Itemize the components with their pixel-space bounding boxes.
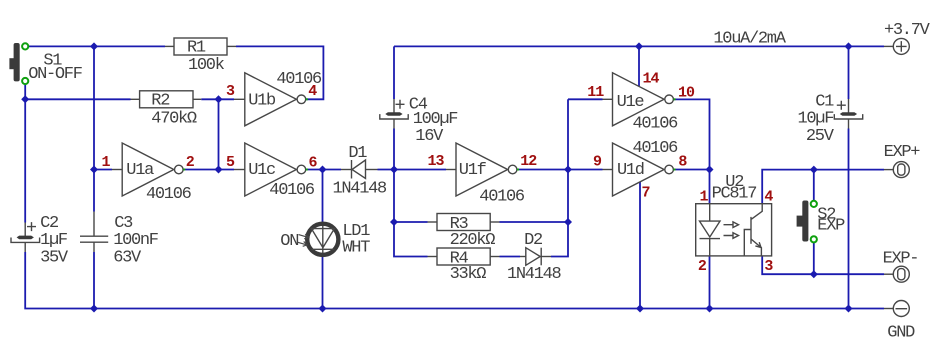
wire top-left rail S1 to R1: [25, 45, 165, 47]
wire vertical column x94 upper: [93, 46, 95, 211]
svg-text:U1c: U1c: [248, 161, 275, 180]
svg-text:12: 12: [520, 153, 537, 170]
wire U1d input pin9: [568, 169, 603, 171]
svg-text:40106: 40106: [633, 115, 679, 134]
svg-text:10: 10: [678, 85, 695, 102]
wire C4 bottom to node 13: [393, 129, 395, 170]
svg-text:63V: 63V: [113, 248, 142, 267]
wire U1f output to node 12: [516, 169, 568, 171]
wire pin7 ground U1d: [639, 182, 641, 309]
junction U1d output node: [706, 166, 714, 174]
terminal S2 top: [811, 201, 817, 207]
diode D1: [333, 144, 388, 199]
resistor R1: [165, 38, 236, 75]
capacitor C4: [380, 96, 458, 146]
wire opto pin4 to EXP+ row: [762, 170, 884, 204]
svg-text:R2: R2: [151, 91, 169, 110]
wire D2 right up to R3 row: [551, 222, 568, 257]
capacitor C3: [80, 212, 158, 268]
wire U1c output to D1: [305, 169, 341, 171]
svg-text:1µF: 1µF: [40, 231, 67, 250]
svg-text:33kΩ: 33kΩ: [450, 265, 487, 284]
svg-text:14: 14: [643, 70, 660, 87]
svg-text:7: 7: [642, 185, 650, 202]
svg-text:+3.7V: +3.7V: [884, 21, 931, 40]
junction U1a input: [90, 166, 98, 174]
svg-text:1N4148: 1N4148: [333, 179, 388, 198]
svg-text:16V: 16V: [415, 127, 444, 146]
svg-text:9: 9: [593, 154, 602, 171]
junction GND pin7: [636, 305, 644, 313]
svg-text:10uA/2mA: 10uA/2mA: [713, 29, 786, 48]
inverter U1b: [234, 70, 322, 126]
wire R4 right to D2: [500, 256, 521, 258]
inverter U1e: [603, 73, 679, 134]
svg-text:10µF: 10µF: [798, 110, 834, 129]
wire R3 left lead: [394, 221, 428, 223]
wire LED column upper: [322, 170, 324, 223]
ground terminal GND: [884, 301, 915, 343]
wire U1a output to U1c input node: [183, 169, 234, 171]
svg-text:D1: D1: [348, 144, 367, 163]
svg-text:40106: 40106: [146, 185, 192, 204]
resistor R3: [428, 214, 500, 251]
junction EXP- S2: [810, 270, 818, 278]
wire U1d output to junction: [673, 169, 710, 171]
wire junction to R2 left: [25, 98, 130, 100]
wire S2 top: [813, 170, 815, 201]
terminal S1 bottom: [22, 78, 28, 84]
svg-text:1N4148: 1N4148: [507, 265, 562, 284]
wire node12 vertical x568: [567, 99, 569, 222]
diode D2: [507, 231, 562, 284]
wire node13 down to R3 and R4: [394, 170, 428, 257]
wire vertical column x94 lower to GND rail: [93, 252, 95, 309]
LED LD1: [280, 222, 370, 258]
inverter U1c: [234, 143, 315, 200]
svg-text:PC817: PC817: [712, 185, 757, 204]
wire S2 bottom to EXP- row: [813, 242, 815, 274]
junction top rail C1: [845, 42, 853, 50]
svg-text:25V: 25V: [806, 127, 835, 146]
svg-text:5: 5: [226, 154, 235, 171]
svg-text:40106: 40106: [479, 188, 525, 207]
junction U1a output node: [215, 166, 223, 174]
junction GND opto pin2: [706, 305, 714, 313]
terminal S2 bottom: [811, 236, 817, 242]
wire opto pin2 to GND: [709, 256, 711, 309]
wire top rail right section: [394, 45, 884, 47]
svg-text:40106: 40106: [633, 139, 679, 158]
junction GND x94: [90, 305, 98, 313]
wire S1 bottom to junction: [24, 81, 26, 99]
svg-text:2: 2: [186, 154, 195, 171]
svg-text:220kΩ: 220kΩ: [450, 231, 496, 250]
inverter U1f: [446, 143, 525, 207]
svg-text:35V: 35V: [40, 248, 69, 267]
capacitor C2: [11, 214, 69, 267]
svg-text:U1d: U1d: [617, 161, 644, 180]
svg-text:1: 1: [102, 154, 111, 171]
wire U1e input pin11: [568, 98, 603, 100]
svg-text:ON: ON: [280, 232, 298, 251]
svg-text:EXP-: EXP-: [883, 250, 919, 269]
svg-text:11: 11: [587, 84, 604, 101]
svg-text:U1e: U1e: [617, 93, 645, 112]
svg-text:8: 8: [678, 154, 687, 171]
switch S1: [9, 43, 81, 84]
wire R3 right to node12 column: [500, 221, 569, 223]
junction top rail x94: [90, 42, 98, 50]
terminal S1 top: [22, 43, 28, 49]
svg-text:EXP: EXP: [817, 216, 845, 235]
power terminal +3.7V: [884, 21, 931, 55]
svg-text:WHT: WHT: [342, 239, 370, 258]
svg-text:3: 3: [764, 258, 773, 275]
wire D1 right to node 13: [378, 169, 395, 171]
junction S1 bottom node: [21, 95, 29, 103]
svg-text:U1f: U1f: [459, 161, 487, 180]
wire C1 top lead: [848, 46, 850, 99]
junction GND LED: [319, 305, 327, 313]
resistor R4: [428, 248, 500, 284]
junction pin3 node: [215, 95, 223, 103]
resistor R2: [131, 91, 202, 129]
svg-text:13: 13: [428, 153, 445, 170]
svg-text:2: 2: [698, 258, 707, 275]
junction top rail pin14: [635, 42, 643, 50]
svg-text:6: 6: [309, 154, 318, 171]
wire junction down to opto pin1: [709, 170, 711, 204]
wire LED column lower: [322, 257, 324, 309]
svg-text:4: 4: [308, 83, 317, 100]
wire U1f input: [394, 169, 446, 171]
svg-text:C1: C1: [815, 92, 834, 111]
wire C2 bottom and GND rail: [25, 252, 884, 309]
svg-text:GND: GND: [887, 324, 915, 343]
wire C4 top lead: [393, 46, 395, 99]
junction R3 right: [564, 218, 572, 226]
connector EXP+: [884, 143, 921, 178]
junction EXP+ S2: [810, 166, 818, 174]
wire R1 right to U1b output pin4: [236, 46, 323, 99]
wire pin14 power U1e: [638, 46, 640, 86]
svg-text:100nF: 100nF: [113, 231, 158, 250]
optocoupler U2 PC817: [696, 173, 772, 256]
junction node 12: [564, 166, 572, 174]
wire vertical x218.5 pin3 to pin5 node: [218, 99, 220, 169]
wire U1e output to x709.5: [673, 99, 710, 169]
wire R2 right to pin3 junction: [201, 98, 234, 100]
inverter U1a: [112, 143, 192, 204]
svg-text:D2: D2: [524, 231, 542, 250]
svg-text:ON-OFF: ON-OFF: [28, 65, 82, 84]
capacitor C1: [798, 92, 863, 146]
switch S2: [797, 201, 846, 242]
wire opto pin3 to EXP- row: [762, 256, 884, 274]
junction U1c output node: [319, 166, 327, 174]
svg-text:3: 3: [226, 83, 235, 100]
wire C1 bottom to GND rail: [848, 129, 850, 309]
svg-text:U1b: U1b: [248, 91, 276, 110]
junction R3 left: [390, 218, 398, 226]
connector EXP-: [883, 250, 919, 283]
svg-text:1: 1: [700, 189, 709, 206]
svg-text:100k: 100k: [188, 56, 225, 75]
svg-text:470kΩ: 470kΩ: [151, 109, 197, 128]
junction node 13: [390, 166, 398, 174]
svg-text:EXP+: EXP+: [884, 143, 921, 162]
wire left column to C2: [24, 99, 26, 222]
svg-text:R1: R1: [187, 39, 206, 58]
svg-text:U1a: U1a: [126, 161, 154, 180]
wire U1a input: [94, 169, 112, 171]
svg-text:40106: 40106: [269, 181, 315, 200]
svg-text:4: 4: [764, 189, 773, 206]
junction GND C1: [845, 305, 853, 313]
inverter U1d: [603, 139, 679, 196]
